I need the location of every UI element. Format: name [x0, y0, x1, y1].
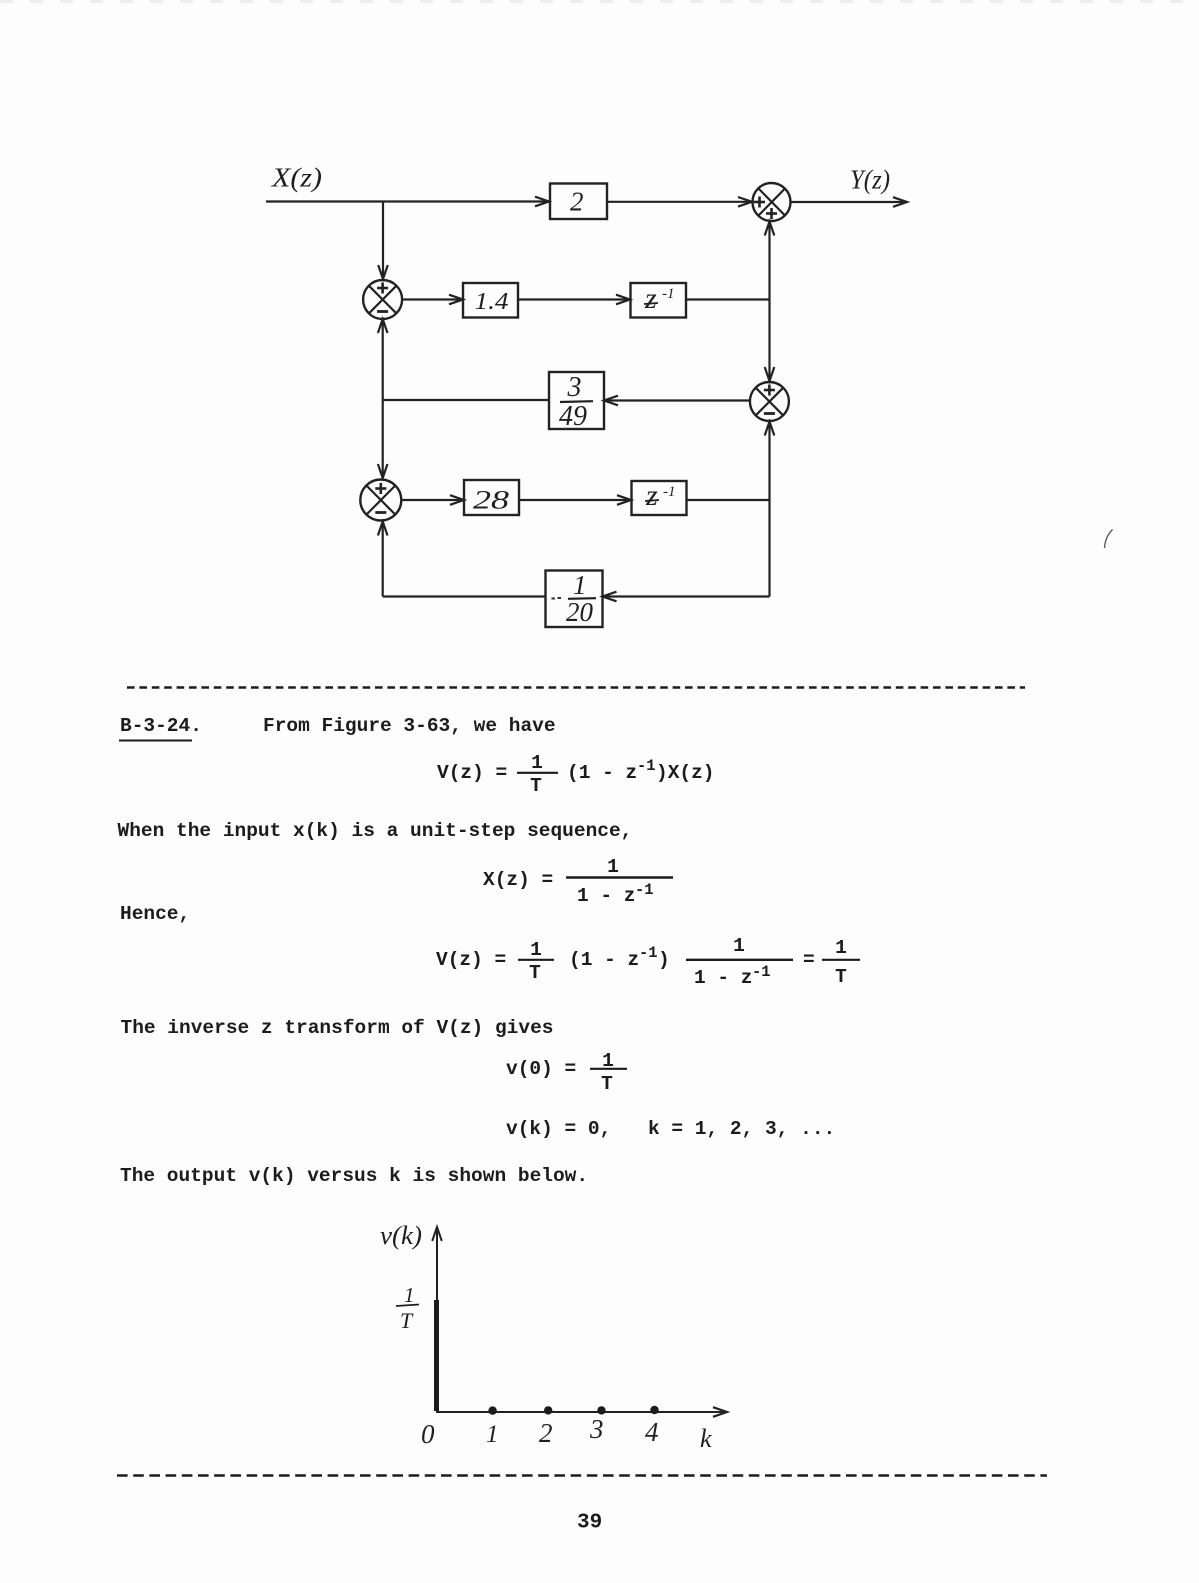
sentence: From Figure 3-63	[263, 715, 556, 737]
wire right bus up into sum3	[765, 422, 775, 501]
wire 28 to delay z-1 b	[519, 495, 631, 505]
svg-text:z: z	[644, 282, 657, 315]
svg-text:28: 28	[473, 486, 509, 515]
tick label 4	[645, 1417, 659, 1447]
wire z2 to right bus	[687, 499, 770, 501]
svg-text:The output v(k) versus k is sh: The output v(k) versus k is shown below.	[120, 1165, 588, 1187]
svg-text:When the input x(k) is a unit-: When the input x(k) is a unit-step seque…	[118, 820, 633, 842]
svg-text:)X(z): )X(z)	[656, 762, 715, 784]
svg-text:v(k): v(k)	[380, 1221, 422, 1250]
svg-text:(1 - z: (1 - z	[569, 949, 639, 971]
block G3 gain 3/49	[549, 372, 604, 432]
dashed separator bottom	[117, 1474, 1047, 1477]
svg-text:1: 1	[733, 935, 745, 957]
wire 1/20 to left and up into sum4	[378, 522, 546, 597]
svg-text:Hence,: Hence,	[120, 903, 190, 925]
svg-text:1: 1	[404, 1283, 415, 1307]
svg-text:-1: -1	[663, 484, 676, 500]
svg-text:-1: -1	[635, 881, 654, 899]
svg-text:0: 0	[421, 1419, 435, 1449]
wire 3/49 to left bus	[383, 399, 549, 401]
stray pen mark right margin	[1105, 530, 1113, 549]
svg-text:z: z	[645, 479, 658, 512]
svg-text:): )	[658, 949, 670, 971]
block G2 gain 1.4	[463, 283, 518, 318]
svg-text:1: 1	[530, 939, 542, 961]
svg-text:1 - z: 1 - z	[577, 885, 636, 907]
dashed separator top	[127, 686, 1025, 688]
svg-text:1: 1	[607, 856, 619, 878]
tick label 0	[421, 1419, 435, 1449]
summing junction S1	[753, 183, 791, 221]
summing junction S3	[750, 382, 789, 421]
svg-text:(1 - z: (1 - z	[567, 762, 637, 784]
svg-text:1.4: 1.4	[475, 289, 509, 315]
svg-text:49: 49	[559, 401, 587, 432]
svg-text:1: 1	[573, 570, 587, 600]
wire sum3 to block 3/49	[604, 396, 750, 406]
wire left bus down into sum4	[378, 400, 388, 478]
block Z2 delay z^-1	[632, 479, 687, 515]
svg-text:39: 39	[577, 1512, 602, 1535]
svg-text:20: 20	[566, 597, 594, 627]
svg-text:2: 2	[570, 187, 584, 217]
sentence: The inverse z transform	[121, 1017, 554, 1039]
wire output Y(z)	[791, 197, 908, 207]
wire sum2 to block 1.4	[402, 295, 463, 305]
y axis	[432, 1227, 442, 1413]
svg-text:V(z) =: V(z) =	[437, 762, 507, 784]
summing junction S4	[360, 480, 401, 521]
svg-text:-1: -1	[637, 757, 656, 775]
tick label 3	[589, 1414, 604, 1444]
svg-text:k: k	[700, 1424, 712, 1453]
wire left bus up into sum2	[378, 319, 388, 400]
equation 2: X(z) = 1/(1 - z^-1)	[483, 856, 673, 907]
svg-text:X(z): X(z)	[271, 163, 322, 193]
svg-text:1: 1	[531, 752, 543, 774]
svg-text:=: =	[803, 949, 815, 971]
sentence: Hence,	[120, 903, 190, 925]
svg-text:-1: -1	[752, 963, 771, 981]
label v(k)	[380, 1221, 422, 1250]
block G1 gain 2	[550, 184, 607, 220]
sample dot k=2	[544, 1406, 552, 1414]
svg-text:v(k) = 0,: v(k) = 0,	[506, 1118, 611, 1140]
sample dot k=4	[650, 1406, 658, 1414]
label 1/T on y axis	[396, 1283, 419, 1333]
problem label B-3-24	[119, 715, 202, 741]
equation 1: V(z) = 1/T (1 - z^-1)X(z)	[437, 752, 715, 797]
svg-text:V(z) =: V(z) =	[436, 949, 506, 971]
svg-text:4: 4	[645, 1417, 659, 1447]
x axis	[437, 1407, 727, 1417]
block G5 gain 1/20	[546, 570, 603, 627]
svg-text:T: T	[400, 1308, 414, 1333]
tick label 2	[539, 1418, 553, 1448]
wire right bus up into sum1	[765, 222, 775, 300]
summing junction S2	[363, 280, 402, 319]
wire 1.4 to delay z-1 a	[518, 295, 630, 305]
svg-text:2: 2	[539, 1418, 553, 1448]
svg-text:3: 3	[567, 372, 582, 403]
wire right bus down and into 1/20	[603, 500, 770, 601]
svg-text:-1: -1	[662, 286, 675, 302]
wire main input line	[266, 197, 549, 207]
block Z1 delay z^-1	[631, 282, 687, 318]
tick label 1	[486, 1421, 499, 1448]
equation 5: v(k) = 0, k = 1,2,3	[506, 1118, 835, 1140]
wire block2 to sum1	[607, 197, 752, 207]
equation 4: v(0) = 1/T	[506, 1050, 627, 1095]
svg-text:k = 1, 2, 3, ...: k = 1, 2, 3, ...	[648, 1118, 835, 1140]
sentence: When the input	[118, 820, 633, 842]
sample dot k=1	[488, 1406, 496, 1414]
svg-text:T: T	[835, 966, 847, 988]
block G4 gain 28	[464, 480, 519, 515]
svg-text:1: 1	[835, 937, 847, 959]
page number 39	[577, 1512, 602, 1535]
svg-text:From Figure 3-63, we have: From Figure 3-63, we have	[263, 715, 556, 737]
svg-text:T: T	[529, 962, 541, 984]
wire branch X(z) down to sum2	[378, 202, 388, 280]
wire sum4 to block 28	[402, 495, 465, 505]
axis label k	[700, 1424, 712, 1453]
svg-text:B-3-24.: B-3-24.	[120, 715, 202, 737]
svg-text:1: 1	[486, 1421, 499, 1448]
svg-text:-1: -1	[639, 944, 658, 962]
node X(z) input label	[271, 163, 322, 193]
impulse bar at k=0 height 1/T	[434, 1300, 439, 1411]
svg-text:3: 3	[589, 1414, 604, 1444]
svg-text:Y(z): Y(z)	[850, 165, 890, 195]
svg-text:The inverse z transform of V(z: The inverse z transform of V(z) gives	[121, 1017, 554, 1039]
svg-text:X(z) =: X(z) =	[483, 869, 553, 891]
node Y(z) output label	[850, 165, 890, 195]
wire z1 to right bus	[686, 298, 770, 300]
wire right bus down into sum3	[765, 300, 775, 382]
sentence: The output v(k)	[120, 1165, 588, 1187]
faint scanner edge dashes top	[0, 0, 1199, 3]
svg-text:T: T	[601, 1073, 613, 1095]
equation 3: V(z) = 1/T (1 - z^-1) 1/(1-z^-1) = 1/T	[436, 935, 860, 989]
svg-text:1 - z: 1 - z	[694, 967, 753, 989]
svg-text:T: T	[530, 775, 542, 797]
sample dot k=3	[597, 1406, 605, 1414]
svg-text:v(0) =: v(0) =	[506, 1058, 576, 1080]
